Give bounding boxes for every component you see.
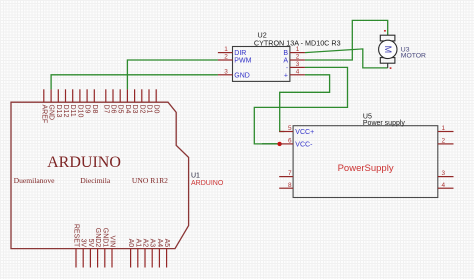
arduino bottom pin A4 xyxy=(158,249,160,268)
U2 right pin 3 minus stub xyxy=(290,66,305,68)
U2 pin 1 DIR stub xyxy=(218,52,233,54)
U5 pin 7 stub xyxy=(279,176,293,178)
svg-text:1: 1 xyxy=(442,125,446,132)
svg-text:4: 4 xyxy=(442,182,446,189)
wire U2 B to motor bottom xyxy=(305,49,388,68)
svg-text:DIR: DIR xyxy=(234,50,246,57)
arduino bottom pin RESET xyxy=(75,249,77,268)
svg-text:+: + xyxy=(284,72,288,79)
wire U2 A to motor top xyxy=(305,20,388,60)
svg-text:A1: A1 xyxy=(134,239,141,248)
svg-text:MOTOR: MOTOR xyxy=(401,52,426,59)
svg-text:AREF: AREF xyxy=(40,105,47,124)
motor U3 bottom pin stub xyxy=(387,63,389,68)
arduino bottom pin labels xyxy=(73,224,171,248)
svg-text:D3: D3 xyxy=(131,105,138,114)
arduino top pin D1 xyxy=(148,89,150,102)
svg-text:GND2: GND2 xyxy=(94,228,101,248)
arduino top pin D6 xyxy=(112,89,114,102)
svg-text:VCC-: VCC- xyxy=(295,141,313,148)
arduino top pin D12 xyxy=(65,89,67,102)
arduino top pin D4 xyxy=(126,89,128,102)
svg-text:D0: D0 xyxy=(153,105,160,114)
U2 pin numbers left xyxy=(224,46,228,75)
motor pin1 number speck xyxy=(384,30,386,32)
U5 pin 8 stub xyxy=(279,187,293,189)
svg-text:8: 8 xyxy=(288,182,292,189)
svg-text:GND: GND xyxy=(48,105,55,121)
svg-text:D4: D4 xyxy=(124,105,131,114)
U2 right pin 1 B stub xyxy=(290,52,305,54)
arduino bottom pin GND2 xyxy=(97,249,99,268)
U5 pin numbers right xyxy=(442,125,446,189)
wire D4 to U2 pin2 xyxy=(127,60,217,89)
arduino top pin D2 xyxy=(141,89,143,102)
svg-text:5: 5 xyxy=(288,125,292,132)
junction dot at U5 pin6 xyxy=(277,142,281,146)
svg-text:GND: GND xyxy=(234,72,250,79)
arduino bottom pin A5 xyxy=(166,249,168,268)
svg-text:-: - xyxy=(286,65,288,71)
arduino top pin D10 xyxy=(79,89,81,102)
svg-text:Power supply: Power supply xyxy=(363,120,406,127)
arduino bottom pin VIN xyxy=(111,249,113,268)
svg-text:A2: A2 xyxy=(142,239,149,248)
svg-text:3: 3 xyxy=(296,61,300,68)
svg-text:D1: D1 xyxy=(146,105,153,114)
U2 right pin 2 A stub xyxy=(290,59,305,61)
svg-text:4: 4 xyxy=(296,68,300,75)
arduino bottom pin 5V xyxy=(89,249,91,268)
svg-text:A0: A0 xyxy=(127,239,134,248)
svg-text:7: 7 xyxy=(288,170,292,177)
svg-text:2: 2 xyxy=(296,54,300,61)
motor U3 top terminal xyxy=(380,35,395,41)
U2 pin 2 PWM stub xyxy=(218,59,233,61)
arduino bottom pin GND1 xyxy=(104,249,106,268)
arduino top pin D0 xyxy=(155,89,157,102)
wire overlap dark segment xyxy=(262,143,279,145)
svg-text:1: 1 xyxy=(224,46,228,53)
U5 pin numbers left xyxy=(288,125,292,189)
arduino top pin D3 xyxy=(134,89,136,102)
svg-text:VIN: VIN xyxy=(109,236,116,248)
arduino bottom pin 3V xyxy=(82,249,84,268)
op-amp U2 box CYTRON MD10C xyxy=(233,47,290,82)
arduino top pin D9 xyxy=(86,89,88,102)
arduino top pin AREF xyxy=(43,89,45,102)
U2 pin 3 GND stub xyxy=(218,74,233,76)
wire U2 plus to U5 VCC+ xyxy=(280,75,330,132)
arduino U1 board outline xyxy=(11,102,189,248)
svg-text:PowerSupply: PowerSupply xyxy=(338,163,394,174)
svg-text:B: B xyxy=(283,50,288,57)
svg-text:UNO R1R2: UNO R1R2 xyxy=(132,176,168,185)
arduino top pin D13 xyxy=(57,89,59,102)
svg-text:5V: 5V xyxy=(87,239,94,248)
svg-text:1: 1 xyxy=(296,46,300,53)
arduino top pin D5 xyxy=(119,89,121,102)
arduino top pin D7 xyxy=(105,89,107,102)
U5 right pin 4 stub xyxy=(438,187,454,189)
svg-text:PWM: PWM xyxy=(234,58,251,65)
svg-text:U1: U1 xyxy=(191,173,200,180)
motor pin2 number speck xyxy=(390,67,392,69)
svg-text:M: M xyxy=(383,46,393,54)
arduino top pin D8 xyxy=(93,89,95,102)
svg-text:D8: D8 xyxy=(91,105,98,114)
U5 right pin 1 stub xyxy=(438,131,454,133)
svg-text:D2: D2 xyxy=(138,105,145,114)
U5 pin names xyxy=(295,129,314,148)
svg-text:A: A xyxy=(283,58,288,65)
svg-text:3V: 3V xyxy=(80,239,87,248)
svg-text:D10: D10 xyxy=(76,105,83,118)
arduino top pin labels xyxy=(40,105,159,124)
svg-text:6: 6 xyxy=(288,138,292,145)
U2 right pin 4 plus stub xyxy=(290,74,305,76)
wire GND to U2 pin3 xyxy=(51,75,218,90)
svg-text:3: 3 xyxy=(442,170,446,177)
svg-text:VCC+: VCC+ xyxy=(295,129,314,136)
svg-text:2: 2 xyxy=(224,54,228,61)
arduino top pin GND xyxy=(50,89,52,102)
svg-text:ARDUINO: ARDUINO xyxy=(47,154,121,171)
power supply U5 box xyxy=(293,126,438,198)
svg-text:D12: D12 xyxy=(62,105,69,118)
U2 pin names xyxy=(234,50,251,79)
svg-text:D5: D5 xyxy=(117,105,124,114)
svg-text:GND1: GND1 xyxy=(101,228,108,248)
svg-text:3: 3 xyxy=(224,68,228,75)
svg-text:2: 2 xyxy=(442,138,446,145)
svg-text:ARDUINO: ARDUINO xyxy=(191,180,224,187)
motor U3 bottom terminal xyxy=(380,58,395,64)
U2 pin numbers right xyxy=(296,46,300,75)
U5 pin 6 stub xyxy=(279,143,293,145)
motor U3 body circle xyxy=(379,40,397,58)
svg-text:D9: D9 xyxy=(84,105,91,114)
svg-text:A5: A5 xyxy=(163,239,170,248)
arduino bottom pin A2 xyxy=(144,249,146,268)
svg-text:RESET: RESET xyxy=(73,224,80,248)
U5 pin 5 stub xyxy=(279,131,293,133)
U5 right pin 3 stub xyxy=(438,176,454,178)
wire U2 minus to U5 VCC- xyxy=(254,67,347,143)
svg-text:Duemilanove: Duemilanove xyxy=(14,176,56,185)
svg-text:D11: D11 xyxy=(69,105,76,117)
arduino bottom pin A0 xyxy=(130,249,132,268)
svg-text:Diecimila: Diecimila xyxy=(80,176,111,185)
arduino top pin D11 xyxy=(72,89,74,102)
svg-text:D13: D13 xyxy=(55,105,62,118)
svg-text:A4: A4 xyxy=(156,239,163,248)
svg-text:A3: A3 xyxy=(149,239,156,248)
arduino bottom pin A1 xyxy=(137,249,139,268)
svg-text:D7: D7 xyxy=(102,105,109,114)
U5 right pin 2 stub xyxy=(438,143,454,145)
arduino bottom pin A3 xyxy=(151,249,153,268)
svg-text:D6: D6 xyxy=(110,105,117,114)
